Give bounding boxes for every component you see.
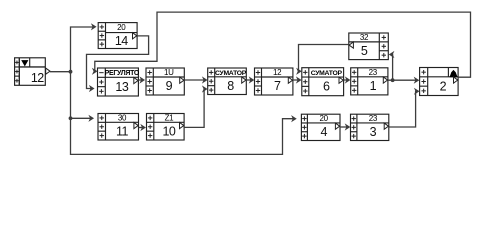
svg-text:РЕГУЛЯТО: РЕГУЛЯТО <box>105 70 140 77</box>
wire junctionB to block11 input <box>71 117 92 119</box>
arrow into block6 middle cell <box>297 77 301 83</box>
svg-text:6: 6 <box>323 80 330 94</box>
wire block3 out up to block2 bottom input <box>389 91 418 127</box>
block 1 (23) <box>351 68 388 95</box>
summator block 8 <box>208 68 247 95</box>
wire block6 to block1 <box>344 79 348 81</box>
block 2 icon cell divider <box>447 68 449 78</box>
svg-text:23: 23 <box>369 68 378 77</box>
block 12 icon cell divider <box>18 58 20 86</box>
svg-text:10: 10 <box>162 124 175 138</box>
svg-text:20: 20 <box>117 23 126 32</box>
junction B on vertical rail <box>69 116 73 120</box>
wire block4 to block3 <box>340 126 348 128</box>
svg-text:1U: 1U <box>164 68 174 77</box>
svg-text:11: 11 <box>116 124 129 138</box>
arrow into block5 bottom-right cell <box>389 52 393 58</box>
scope block 2 <box>420 68 459 96</box>
block 10 (Z1) <box>147 113 185 140</box>
block 4 (20) <box>301 114 340 140</box>
svg-text:12: 12 <box>273 68 282 77</box>
wire junctionC up to block5 input <box>392 55 393 81</box>
block 11 (30) <box>98 113 139 140</box>
summator block 6 <box>302 68 344 96</box>
wire block14 out loop to block13 bottom input <box>87 36 149 89</box>
wire block1 out to block2 input <box>388 79 417 81</box>
block 9 (1U) <box>146 68 184 95</box>
block 3 (23) <box>351 114 389 140</box>
svg-text:5: 5 <box>361 44 368 58</box>
arrow into block7 middle cell <box>249 77 253 83</box>
arrow into block13 minus cell <box>93 69 97 75</box>
junction A at block12 output <box>69 70 73 74</box>
source block 12 <box>15 58 50 86</box>
svg-text:9: 9 <box>166 79 173 93</box>
arrow into block1 middle cell <box>346 77 350 83</box>
junction C at block1 output <box>391 78 395 82</box>
svg-text:7: 7 <box>274 79 281 93</box>
svg-text:20: 20 <box>320 114 329 123</box>
arrow into block13 bottom cell <box>90 86 94 92</box>
svg-text:8: 8 <box>227 79 234 93</box>
arrow into block2 bottom cell <box>415 89 419 95</box>
svg-text:2: 2 <box>440 79 447 93</box>
arrow into block9 middle cell <box>140 77 144 83</box>
svg-text:13: 13 <box>115 80 128 94</box>
svg-text:Z1: Z1 <box>165 113 175 122</box>
wire block10 out up to block8 bottom input <box>184 89 205 127</box>
arrow into block8 bottom cell <box>203 86 207 92</box>
svg-text:23: 23 <box>369 114 378 123</box>
svg-text:СУМАТОР: СУМАТОР <box>215 70 247 77</box>
feedback block 5 (32) mirrored <box>349 33 389 60</box>
svg-text:30: 30 <box>118 113 127 122</box>
svg-text:3: 3 <box>370 125 377 139</box>
wire block7 to block6 <box>293 79 299 81</box>
svg-text:32: 32 <box>360 33 369 42</box>
svg-text:14: 14 <box>115 34 128 48</box>
arrow into block10 middle cell <box>141 125 145 131</box>
arrow into block3 middle cell <box>345 124 349 130</box>
regulator block 13 <box>98 68 140 96</box>
wire block8 to block7 <box>246 79 252 81</box>
svg-text:1: 1 <box>370 79 377 93</box>
block 7 (12) <box>255 68 293 95</box>
arrow into block14 top cell <box>92 24 96 30</box>
arrow into block6 top cell <box>297 69 301 75</box>
arrow into block2 middle cell <box>414 77 418 83</box>
arrow into block8 middle cell <box>203 77 207 83</box>
wire block13 to block9 <box>138 79 142 81</box>
wire block12 out to junction <box>50 71 71 73</box>
wire block11 to block10 <box>139 127 144 129</box>
arrow into block4 top cell <box>292 116 296 122</box>
feedback wire block2 out along top to block13 minus input <box>95 12 471 77</box>
wire junctionA down, bottom rail to block4 <box>71 72 295 155</box>
wire junctionA up to block14 input <box>71 27 95 72</box>
svg-text:12: 12 <box>31 71 44 85</box>
wire block5 out to block6 top input <box>299 45 349 72</box>
svg-text:4: 4 <box>320 125 327 139</box>
svg-text:СУМАТОР: СУМАТОР <box>311 70 343 77</box>
constant block 14 (20) <box>98 23 137 49</box>
arrow into block11 top cell <box>89 116 93 122</box>
wire block9 to block8 <box>184 79 205 81</box>
